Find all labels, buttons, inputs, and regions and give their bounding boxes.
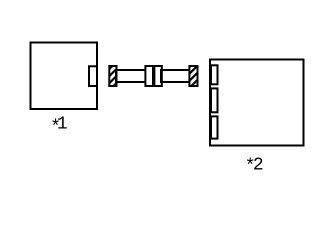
- wire harness connector B (hatched): [189, 66, 197, 86]
- wire segment 1: [116, 70, 146, 82]
- label *1: [50, 115, 68, 138]
- component box *1: [31, 43, 98, 110]
- inline connector mating divider: [152, 65, 155, 87]
- connector port 2 on box *2: [211, 88, 218, 112]
- connector port 1 on box *2: [211, 65, 218, 84]
- wire segment 2: [161, 70, 190, 82]
- connector port on box *1: [89, 66, 97, 86]
- svg-text:1: 1: [57, 115, 68, 135]
- svg-text:2: 2: [253, 155, 264, 175]
- component box *2: [210, 60, 304, 146]
- wire harness connector A (hatched): [109, 66, 116, 86]
- connector port 3 on box *2: [211, 116, 218, 138]
- label *2: [245, 155, 264, 177]
- inline connector body: [145, 66, 161, 86]
